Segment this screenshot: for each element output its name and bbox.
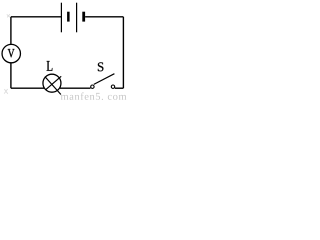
watermark fragment top-left [7, 14, 10, 17]
wire top-right horizontal [85, 16, 123, 18]
voltmeter letter V [8, 49, 15, 57]
battery B1 negative plate (left cell, short thick) [67, 12, 70, 22]
label L [47, 61, 53, 71]
voltmeter U1 circle [2, 44, 20, 62]
label S [98, 62, 104, 71]
battery B1 negative plate (right cell, short thick) [82, 12, 85, 22]
watermark fragment bottom-left [4, 89, 8, 94]
switch S right terminal [111, 85, 114, 88]
wire top-left horizontal [11, 16, 62, 18]
wire bottom middle horizontal [60, 87, 91, 89]
wire left vertical lower [10, 63, 12, 88]
wire left vertical upper [10, 17, 12, 45]
lamp L cross stroke NE-SW [45, 76, 61, 90]
battery B1 positive plate (left cell, long thin) [60, 3, 62, 33]
wire bottom-right horizontal [115, 87, 124, 89]
switch S lever (open) [94, 74, 115, 85]
switch S left terminal [91, 85, 94, 88]
watermark manfen5.com [61, 92, 127, 100]
wire bottom-left horizontal [11, 87, 44, 89]
lamp L circle [43, 74, 61, 92]
lamp L cross stroke NW-SE (with tail overshoot) [45, 77, 61, 95]
wire right vertical [122, 17, 124, 88]
battery B1 positive plate (right cell, long thin) [76, 3, 78, 33]
